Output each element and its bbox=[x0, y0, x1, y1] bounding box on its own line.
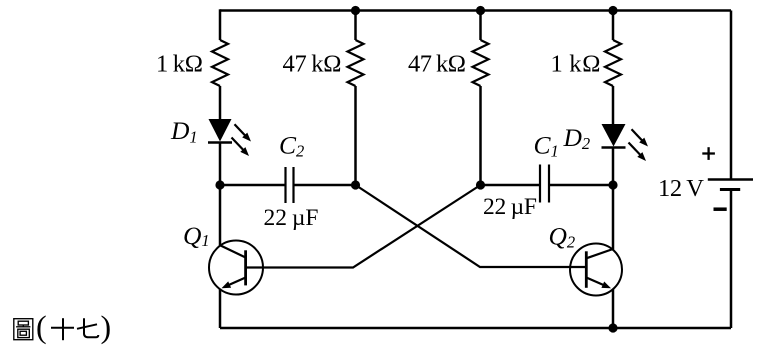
resistor R 47kohm right bbox=[473, 40, 489, 86]
wire bottom rail (ground return) bbox=[220, 327, 731, 330]
label battery minus bbox=[714, 207, 727, 211]
wire R2 to node B bbox=[354, 86, 357, 185]
junction dot top D bbox=[608, 6, 617, 15]
transistor Q2 bbox=[570, 244, 622, 296]
wire R3 to node C bbox=[479, 86, 482, 185]
svg-text:22 µF: 22 µF bbox=[483, 194, 537, 220]
wire node B to Q2 base (cross-coupling) bbox=[356, 185, 587, 267]
svg-text:C1: C1 bbox=[534, 130, 559, 160]
wire branch4 top bbox=[612, 9, 615, 40]
wire node A to Q1 collector bbox=[219, 185, 222, 246]
capacitor C1 bbox=[540, 165, 549, 203]
label battery plus bbox=[702, 147, 715, 160]
wire Q2 emitter to bottom rail bbox=[612, 289, 615, 328]
svg-text:C2: C2 bbox=[279, 130, 304, 160]
wire R1 to D1 bbox=[219, 86, 222, 119]
resistor R 47kohm left bbox=[348, 40, 364, 86]
junction dot bottom (Q2 emitter) bbox=[608, 323, 617, 332]
wire node D to Q2 collector bbox=[612, 185, 615, 250]
wire branch2 top bbox=[354, 9, 357, 40]
capacitor C2 bbox=[286, 167, 294, 203]
svg-text:): ) bbox=[101, 309, 112, 345]
wire battery - to bottom rail bbox=[730, 190, 733, 329]
wire node C to C1 left plate bbox=[481, 184, 541, 187]
svg-text:Q2: Q2 bbox=[549, 222, 576, 252]
svg-text:1 kΩ: 1 kΩ bbox=[551, 51, 601, 78]
wire branch3 top bbox=[479, 9, 482, 40]
wire right rail to battery + bbox=[730, 11, 733, 180]
junction dot top C bbox=[476, 6, 485, 15]
svg-text:1 kΩ: 1 kΩ bbox=[156, 51, 203, 78]
junction dot node A bbox=[215, 180, 224, 189]
wire C2 right plate to node B bbox=[294, 184, 356, 187]
resistor R 1kohm left bbox=[212, 40, 228, 86]
svg-text:47 kΩ: 47 kΩ bbox=[408, 51, 466, 78]
svg-text:47 kΩ: 47 kΩ bbox=[283, 51, 342, 78]
junction dot node D bbox=[608, 180, 617, 189]
junction dot node B bbox=[351, 180, 360, 189]
wire Q1 emitter to bottom rail bbox=[219, 289, 222, 328]
junction dot top B bbox=[351, 6, 360, 15]
svg-text:22 µF: 22 µF bbox=[264, 205, 319, 231]
wire node A to C2 left plate bbox=[220, 184, 286, 187]
svg-text:D2: D2 bbox=[563, 123, 591, 153]
wire C1 right plate to node D bbox=[549, 184, 613, 187]
svg-text:Q1: Q1 bbox=[183, 221, 210, 250]
LED D2 bbox=[602, 124, 649, 161]
battery 12V bbox=[708, 180, 753, 190]
junction dot node C bbox=[476, 180, 485, 189]
svg-text:(: ( bbox=[36, 309, 47, 345]
svg-text:D1: D1 bbox=[170, 116, 198, 147]
resistor R 1kohm right bbox=[605, 40, 621, 86]
svg-text:12 V: 12 V bbox=[658, 175, 704, 202]
wire D2 to node D bbox=[612, 148, 615, 186]
transistor Q1 bbox=[209, 241, 263, 295]
wire node C to Q1 base (cross-coupling) bbox=[246, 185, 481, 268]
caption figure 17 (Chinese) bbox=[14, 318, 99, 340]
LED D1 bbox=[208, 119, 251, 156]
wire branch1 top bbox=[219, 9, 222, 40]
wire R4 to D2 bbox=[612, 86, 615, 124]
wire D1 to node A bbox=[219, 143, 222, 186]
wire top rail (+V) bbox=[220, 9, 731, 12]
